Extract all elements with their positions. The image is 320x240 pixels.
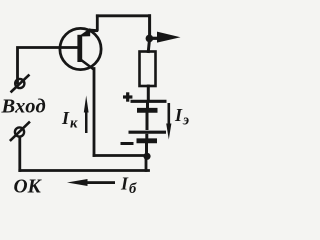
battery connector (146, 113, 149, 131)
battery GB (129, 101, 167, 156)
battery plate short 2 (137, 138, 158, 143)
battery connector (145, 134, 148, 139)
battery connector (146, 101, 149, 108)
battery plate long 2 (129, 131, 167, 134)
arrow output (right) (152, 32, 181, 43)
transistor emitter lead with arrow (PNP) (79, 28, 99, 37)
battery plus label (123, 92, 132, 101)
transistor body circle (60, 28, 101, 69)
wire bottom rail (20, 169, 149, 172)
node output junction (146, 35, 154, 43)
battery plate long 1 (+) (131, 100, 167, 103)
svg-text:ОК: ОК (14, 177, 43, 198)
wire collector vertical (93, 69, 96, 156)
wire battery to bottom rail (145, 157, 148, 171)
wire input lower vertical (18, 137, 21, 171)
arrow Ib current (left) (67, 179, 115, 186)
battery plate short 1 (137, 108, 158, 113)
wire right vertical to resistor (148, 16, 149, 52)
wire top rail (97, 14, 149, 17)
input terminal lower (11, 123, 29, 141)
transistor Q1 (60, 28, 101, 70)
transistor base bar (77, 35, 82, 62)
wire collector horizontal (94, 154, 147, 157)
wire base lead (18, 48, 79, 84)
battery connector to node (145, 143, 148, 156)
wire emitter vertical (96, 16, 99, 30)
input terminal upper (12, 76, 29, 92)
arrow Ie current (down) (166, 103, 171, 140)
battery minus label (121, 142, 134, 145)
transistor collector lead diagonal (81, 60, 95, 71)
wire resistor to battery (147, 86, 150, 100)
arrow Ik current (up) (84, 96, 89, 134)
node battery junction (143, 153, 150, 160)
svg-text:Вход: Вход (1, 96, 46, 118)
resistor R (140, 52, 156, 87)
